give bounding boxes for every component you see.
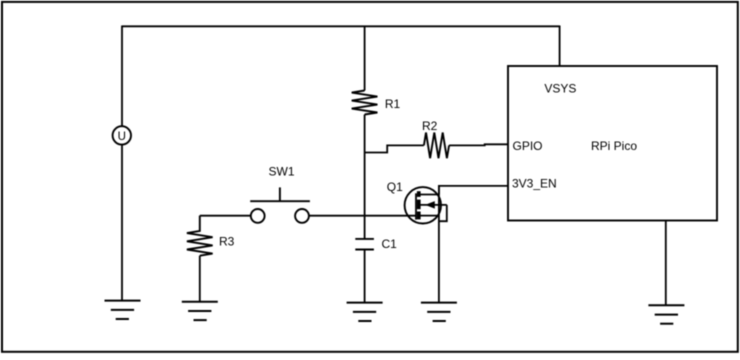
transistor Q1 <box>387 180 447 224</box>
switch SW1 <box>250 165 310 223</box>
svg-text:RPi Pico: RPi Pico <box>591 139 637 153</box>
svg-text:R1: R1 <box>385 97 401 111</box>
svg-text:3V3_EN: 3V3_EN <box>512 177 557 191</box>
wire Pico to ground <box>665 221 667 306</box>
resistor R1 <box>352 91 401 115</box>
resistor R3 <box>187 216 235 256</box>
wire source to ground <box>121 145 123 301</box>
svg-text:Q1: Q1 <box>387 180 403 194</box>
ground (Pico) <box>648 305 684 323</box>
wire C1 to ground <box>364 250 366 303</box>
wire VSYS to top rail <box>559 26 561 67</box>
ground (C1) <box>347 303 383 321</box>
wire trunk R1 to C1 <box>364 115 366 239</box>
svg-text:GPIO: GPIO <box>513 139 543 153</box>
voltage source U <box>113 126 131 144</box>
svg-text:VSYS: VSYS <box>544 81 576 95</box>
wire Q1 source to ground <box>438 186 440 303</box>
svg-text:U: U <box>118 131 126 143</box>
wire R3 to ground <box>199 256 201 302</box>
IC RPi Pico <box>508 66 717 221</box>
wire R2 to GPIO pin <box>449 144 508 145</box>
wire trunk top <box>364 26 366 91</box>
wire Q1 bulk tab <box>439 205 447 221</box>
capacitor C1 <box>355 237 397 251</box>
wire Q1 drain to 3V3_EN pin <box>439 186 508 195</box>
wire jog trunk to R2 <box>365 145 424 152</box>
wire left drop to source <box>121 26 123 127</box>
ground (Q1) <box>421 303 457 321</box>
svg-text:R2: R2 <box>422 119 438 133</box>
ground (left) <box>105 301 141 319</box>
wire top rail <box>122 25 560 27</box>
wire SW1 to Q1 gate <box>309 215 416 217</box>
ground (R3) <box>182 302 218 320</box>
wire R3 corner to SW1 <box>200 215 251 217</box>
svg-text:R3: R3 <box>219 235 235 249</box>
resistor R2 <box>422 119 449 158</box>
svg-text:SW1: SW1 <box>269 165 295 179</box>
svg-text:C1: C1 <box>382 237 398 251</box>
